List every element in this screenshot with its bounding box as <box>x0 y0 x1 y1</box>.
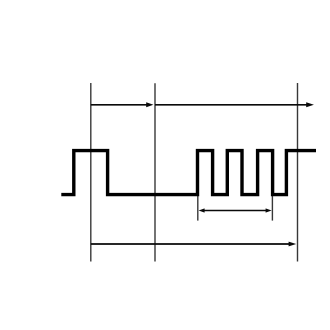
node t2 : right reference vertical line <box>297 83 299 262</box>
arrowhead of top dimension arrow 2 <box>306 102 314 107</box>
tick : small dimension left extension tick <box>197 196 199 221</box>
wire : small double-headed dimension arrow shaft <box>203 210 267 212</box>
arrowhead of bottom dimension arrow <box>289 242 297 247</box>
arrowhead of top dimension arrow 1 <box>146 102 153 107</box>
node t0 : left reference vertical line <box>90 83 92 262</box>
tick : small dimension right extension tick <box>271 196 273 221</box>
node t1 : middle reference vertical line <box>154 83 156 261</box>
wire : bottom dimension arrow shaft <box>91 243 290 245</box>
wire : top dimension arrow 1 shaft <box>91 104 148 106</box>
left arrowhead of small dimension arrow <box>199 208 205 212</box>
wire : top dimension arrow 2 shaft <box>155 104 308 106</box>
signal waveform trace <box>61 151 316 195</box>
right arrowhead of small dimension arrow <box>266 208 272 212</box>
